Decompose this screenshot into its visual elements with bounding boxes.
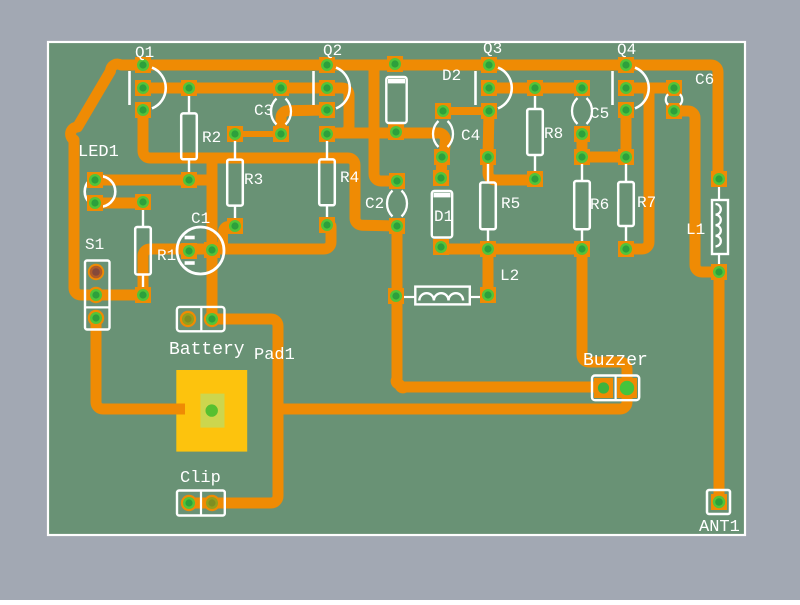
svg-text:D2: D2 xyxy=(442,67,461,85)
svg-text:Pad1: Pad1 xyxy=(254,346,295,365)
svg-text:S1: S1 xyxy=(85,236,104,254)
svg-text:C5: C5 xyxy=(590,105,609,123)
wire Q4-bottom to R7-top xyxy=(621,110,632,157)
wire Q2-mid U to R4-top xyxy=(327,88,349,133)
wire R4-top D2-bottom C4-bottom y133 xyxy=(327,133,445,157)
svg-text:R1: R1 xyxy=(157,247,176,265)
resistor R3 xyxy=(227,141,263,218)
switch S1 xyxy=(85,236,110,330)
LED1 pads xyxy=(87,172,103,211)
clip big pad xyxy=(176,370,247,452)
capacitor C1 pads xyxy=(181,242,220,259)
inductor L1 xyxy=(686,187,728,264)
battery holder xyxy=(169,307,245,360)
svg-text:C6: C6 xyxy=(695,71,714,89)
inductor L1 pads xyxy=(711,171,727,280)
capacitor C3 xyxy=(254,99,291,125)
svg-text:Q1: Q1 xyxy=(135,44,154,62)
transistor Q1 pads xyxy=(135,57,151,118)
capacitor C1 body xyxy=(177,210,224,274)
svg-text:C4: C4 xyxy=(461,127,480,145)
svg-text:Q3: Q3 xyxy=(483,40,502,58)
svg-text:LED1: LED1 xyxy=(78,143,119,162)
wire R1-bottom under body to C1/R4-bottom xyxy=(143,225,331,295)
wire S1-bottom to clip big pad xyxy=(96,318,185,409)
clip holder xyxy=(177,469,225,516)
capacitor C2 xyxy=(365,191,407,217)
inductor L2 pads xyxy=(388,287,496,304)
wire C4-bottom to D1-top xyxy=(441,157,442,178)
svg-text:R6: R6 xyxy=(590,196,609,214)
resistor R4 xyxy=(319,141,359,217)
buzzer pads xyxy=(594,378,637,398)
capacitor C3 pads xyxy=(273,80,289,142)
wire branch to R7-bottom xyxy=(626,88,649,249)
LED LED1 label xyxy=(78,143,119,162)
diode D1 pads xyxy=(433,170,449,255)
svg-text:R3: R3 xyxy=(244,171,263,189)
transistor Q1 xyxy=(130,44,166,108)
resistor R6 xyxy=(574,164,609,241)
svg-text:Buzzer: Buzzer xyxy=(583,351,648,371)
transistor Q2 pads xyxy=(319,57,335,118)
wire buzzer-right return y409 xyxy=(278,388,627,409)
capacitor C6 pads xyxy=(666,80,682,119)
resistor R2 pads xyxy=(181,80,197,188)
capacitor C6 xyxy=(666,71,714,105)
wire top rail Q1-Q2-D2-Q3-Q4 to L1 xyxy=(143,65,718,179)
transistor Q4 xyxy=(613,41,649,108)
resistor R4 pads xyxy=(319,126,335,233)
svg-text:L2: L2 xyxy=(500,267,519,285)
wire top rail to C2-top xyxy=(374,65,397,181)
transistor Q2 xyxy=(314,42,350,108)
wire Q1-top to S1/R1 via left rail xyxy=(71,64,143,295)
wire LED1-top to R2-bottom xyxy=(95,175,189,186)
svg-text:Battery: Battery xyxy=(169,340,245,360)
wire Q3-mid R8-top C5-top xyxy=(489,83,582,94)
inductor L2 xyxy=(404,267,519,304)
wire R3-top to C3-bottom xyxy=(235,131,281,137)
resistor R2 xyxy=(181,96,221,172)
capacitor C2 pads xyxy=(389,173,405,234)
LED LED1 body xyxy=(85,176,116,207)
svg-text:Clip: Clip xyxy=(180,469,221,488)
diode D1 xyxy=(432,191,453,238)
capacitor C5 pads xyxy=(574,80,590,142)
wire base rail left y88 xyxy=(143,83,327,94)
PCB board xyxy=(48,42,745,535)
clip pads xyxy=(181,495,220,511)
wire rail to L2-right xyxy=(483,249,494,295)
battery pads xyxy=(180,311,220,327)
wire Q4-mid to C6-top xyxy=(626,83,674,94)
svg-text:L1: L1 xyxy=(686,221,705,239)
svg-text:R5: R5 xyxy=(501,195,520,213)
wire LED1-bottom to R1-top xyxy=(95,198,143,209)
resistor R7 xyxy=(618,164,656,241)
svg-text:ANT1: ANT1 xyxy=(699,518,740,537)
buzzer xyxy=(583,351,648,400)
resistor R8 pads xyxy=(527,80,543,187)
svg-text:Q2: Q2 xyxy=(323,42,342,60)
wire C3-bottom to Q2 xyxy=(281,110,327,134)
wire Q1-bottom y158 to C2-bottom xyxy=(143,110,396,226)
resistor R5 pads xyxy=(480,149,496,257)
wire R3-bottom jog xyxy=(223,226,235,249)
resistor R5 xyxy=(480,164,520,241)
diode D2 pads xyxy=(387,56,404,140)
wire R6-top to R7-top xyxy=(574,152,626,163)
svg-text:C3: C3 xyxy=(254,102,273,120)
wire C4-top to Q3 xyxy=(443,107,489,115)
diode D2 xyxy=(386,67,461,123)
wire x212 rail to battery-right xyxy=(207,158,218,319)
capacitor C4 xyxy=(433,121,480,147)
capacitor C5 xyxy=(572,98,609,124)
resistor R1 xyxy=(135,210,176,287)
resistor R6 pads xyxy=(574,149,590,257)
wire D1/R5/R6-bottom rail to buzzer-right xyxy=(441,247,627,388)
antenna ANT1 pad xyxy=(711,494,727,510)
resistor R7 pads xyxy=(618,149,634,257)
wire C2-bottom L2-left to buzzer-left xyxy=(396,226,603,388)
wire C5-bottom to R6-top xyxy=(577,134,588,157)
antenna ANT1 xyxy=(699,490,740,537)
svg-text:R7: R7 xyxy=(637,194,656,212)
capacitor C4 pads xyxy=(434,103,451,165)
wire battery-right to clip pads xyxy=(189,319,278,503)
svg-text:D1: D1 xyxy=(434,208,453,226)
transistor Q3 pads xyxy=(481,57,497,119)
wire R2-bottom stub xyxy=(189,175,212,186)
wire C6-bottom L1-bottom to ANT1 xyxy=(674,111,719,502)
resistor R8 xyxy=(527,96,563,171)
wire Q3 to R5-top xyxy=(488,111,489,157)
svg-text:R8: R8 xyxy=(544,125,563,143)
svg-text:R4: R4 xyxy=(340,169,359,187)
switch S1 pads xyxy=(88,264,104,326)
wire R5-top jog to R8-bottom xyxy=(488,157,535,180)
resistor R3 pads xyxy=(227,126,243,234)
resistor R1 pads xyxy=(135,194,151,303)
svg-text:Q4: Q4 xyxy=(617,41,636,59)
svg-text:R2: R2 xyxy=(202,129,221,147)
svg-text:C1: C1 xyxy=(191,210,210,228)
transistor Q4 pads xyxy=(618,57,634,118)
svg-text:C2: C2 xyxy=(365,195,384,213)
transistor Q3 xyxy=(476,40,512,108)
